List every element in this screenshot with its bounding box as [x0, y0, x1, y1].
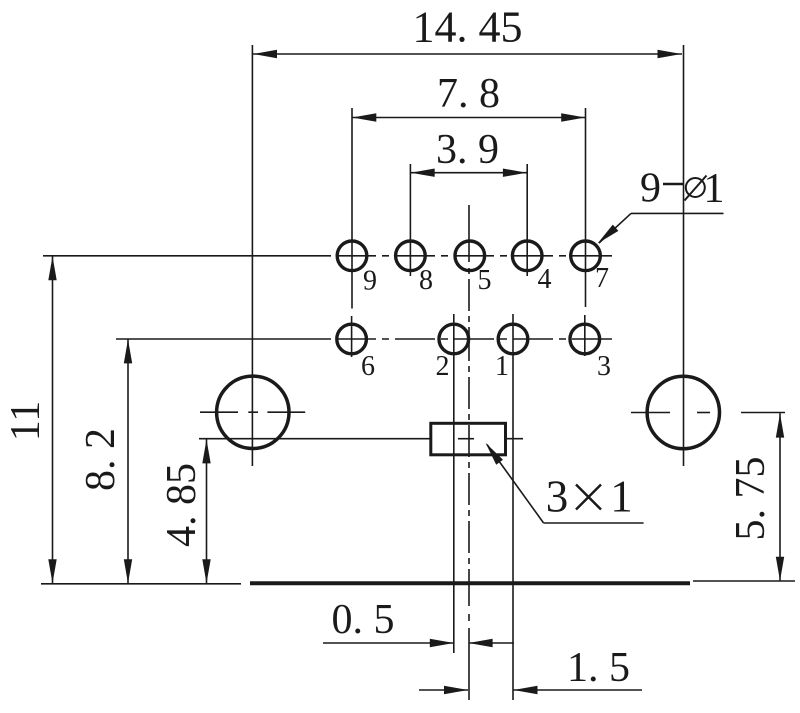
svg-text:8. 2: 8. 2 [78, 428, 124, 491]
dimension 3.9 right arrow [503, 169, 527, 177]
dimension 0.5 left line [323, 642, 454, 644]
slot horizontal centerline left segment [199, 438, 431, 440]
extension line right of 7.8 through pin 7 [585, 108, 587, 307]
pin hole 3 [570, 324, 600, 354]
svg-text:5. 75: 5. 75 [728, 457, 774, 541]
pin hole 4 [512, 241, 542, 271]
svg-text:5: 5 [478, 265, 492, 296]
svg-text:9: 9 [640, 166, 661, 212]
dimension 11 line [52, 256, 54, 584]
svg-text:7. 8: 7. 8 [437, 71, 500, 117]
dimension 1.5 left line [419, 689, 468, 691]
diameter symbol circle [686, 178, 705, 197]
dimension 3.9 left arrow [411, 169, 435, 177]
slot centerline right segment [505, 438, 523, 440]
right mounting hole horizontal centerline [631, 412, 785, 414]
svg-text:11: 11 [3, 401, 49, 441]
dimension 4.85 line [206, 439, 208, 584]
svg-text:14. 45: 14. 45 [413, 3, 523, 52]
svg-text:0. 5: 0. 5 [332, 597, 395, 643]
leader line to slot [487, 445, 544, 524]
extension line left of 3.9 through pin 8 [409, 164, 411, 276]
left mounting hole [217, 376, 289, 448]
leader underline for 9-diameter-1 [631, 212, 724, 214]
dimension 0.5 right arrow [469, 639, 493, 647]
pin hole 8 [396, 241, 426, 271]
dimension 3.9 line [410, 172, 527, 174]
row 1 centerline [43, 255, 614, 257]
dimension 0.5 right line [469, 642, 514, 644]
pin 1 centerline vertical [512, 314, 514, 700]
bottom extension line right [693, 580, 795, 582]
svg-text:7: 7 [595, 263, 609, 294]
dimension 1.5 right line [514, 689, 643, 691]
dimension 4.85 bottom arrow [202, 559, 210, 583]
dimension 14.45 line [253, 53, 682, 55]
leader arrow at pin 7 [598, 225, 619, 244]
slot center dash [458, 438, 474, 440]
leader line to pin 7 [599, 213, 631, 243]
dimension 14.45 left arrow [253, 50, 277, 58]
label 9-diameter-1 dash [663, 183, 684, 185]
svg-text:2: 2 [436, 351, 450, 382]
dimension 7.8 right arrow [561, 113, 585, 121]
central axis vertical dash-dot [468, 205, 470, 700]
row 2 centerline [116, 338, 614, 340]
svg-text:1: 1 [610, 472, 633, 522]
dimension 8.2 top arrow [124, 339, 132, 363]
svg-text:4. 85: 4. 85 [159, 463, 205, 547]
leader arrow at slot [486, 443, 504, 465]
leader underline for 3x1 [544, 522, 644, 524]
svg-text:9: 9 [363, 266, 377, 297]
extension line right of 14.45 through right mounting hole [683, 45, 685, 466]
dimension 4.85 top arrow [202, 439, 210, 463]
left mounting hole horizontal centerline [200, 411, 305, 413]
svg-text:3: 3 [546, 472, 569, 522]
centerline through pin 3 [584, 315, 586, 356]
pin 2 centerline vertical [453, 314, 455, 653]
dimension 1.5 left arrow [444, 686, 468, 694]
dimension 14.45 right arrow [658, 50, 682, 58]
svg-text:4: 4 [538, 264, 552, 295]
dimension 7.8 left arrow [352, 113, 376, 121]
dimension 5.75 line [779, 413, 781, 581]
dimension 1.5 right arrow [514, 686, 538, 694]
bottom extension line left [41, 583, 241, 585]
svg-text:3: 3 [597, 351, 611, 382]
pin hole 5 [455, 241, 485, 271]
svg-text:8: 8 [419, 265, 433, 296]
svg-text:6: 6 [361, 351, 375, 382]
extension line right of 3.9 through pin 4 [526, 164, 528, 276]
dimension 7.8 line [352, 117, 586, 119]
pin hole 7 [571, 241, 601, 271]
dimension 0.5 left arrow [430, 639, 454, 647]
dimension 5.75 bottom arrow [776, 557, 784, 581]
board edge thick line [250, 581, 690, 585]
pin hole 2 [439, 324, 469, 354]
extension line left of 14.45 through left mounting hole [251, 45, 253, 466]
multiplication cross [576, 485, 601, 510]
svg-text:1. 5: 1. 5 [567, 645, 630, 691]
pin hole 9 [337, 241, 367, 271]
svg-text:1: 1 [704, 166, 725, 212]
extension line left of 7.8 through pin 9 [351, 108, 353, 309]
svg-text:1: 1 [495, 351, 509, 382]
diameter symbol slash [685, 176, 707, 201]
dimension 5.75 top arrow [776, 414, 784, 438]
svg-text:3. 9: 3. 9 [436, 127, 499, 173]
pin hole 6 [337, 324, 367, 354]
dimension 8.2 line [127, 339, 129, 584]
dimension 11 bottom arrow [48, 559, 56, 583]
slot rectangle 3x1 [431, 423, 506, 455]
dimension 8.2 bottom arrow [124, 559, 132, 583]
dimension 11 top arrow [48, 256, 56, 280]
centerline through pin 6 [351, 316, 353, 357]
right mounting hole [647, 376, 719, 448]
pin hole 1 [498, 324, 528, 354]
